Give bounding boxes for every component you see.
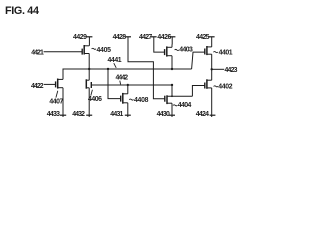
svg-text:4442: 4442 [116,74,129,81]
wire 4404 source down to 4430 [171,103,173,117]
svg-text:4433: 4433 [47,111,60,118]
wire 4408 source down to 4431 [127,103,129,117]
wire node 4441 branch down to 4408 gate [108,69,121,99]
terminal tick 4430 [169,114,175,116]
wire 4401 source down through 4423 node to 4402 drain [211,54,213,80]
svg-text:4423: 4423 [225,67,238,74]
leader for 4407 [56,91,58,98]
terminal tick 4429 [86,36,92,38]
junction dot 4442/4408 [127,84,129,86]
terminal tick 4432 [86,114,92,116]
svg-text:4424: 4424 [196,111,209,118]
node line 4441 [63,69,192,79]
terminal tick 4427 [151,36,157,38]
terminal tick 4428 [125,36,131,38]
junction dot 4404 drain [171,95,173,97]
terminal tick 4424 [210,114,216,116]
svg-text:4432: 4432 [72,111,85,118]
transistor 4401 [205,46,212,55]
leader tilde 4403 [175,49,179,50]
wire 4427 stem to 4403 gate [154,37,165,52]
svg-text:4429: 4429 [73,34,87,41]
leader for 4441 [114,63,116,68]
svg-text:4406: 4406 [88,96,102,103]
transistor 4405 [82,45,89,55]
node line 4442 [91,84,172,86]
leader tilde 4405 [92,48,96,49]
wire 4407 source down to 4433 [62,88,64,117]
wire 4422 to 4407 gate [44,83,56,85]
wire 4403 source down to node 4441 [171,56,173,69]
leader tilde 4401 [213,52,217,53]
wire 4442 end down to 4404 drain [171,85,173,96]
svg-text:4407: 4407 [49,99,63,106]
junction dot node 4441/4403 [171,68,173,70]
junction dot node 4441/4405 [88,68,90,70]
svg-text:4421: 4421 [31,49,44,56]
transistor 4406 (gate on right) [86,79,91,88]
wire 4423 output stub [212,68,225,70]
junction dot node 4423 [211,68,213,70]
svg-text:4430: 4430 [157,111,170,118]
svg-text:4403: 4403 [179,47,193,54]
wire 4404 drain lead right to 4402 gate elbow [167,95,192,97]
leader for 4406 [91,90,93,96]
wire 4401 gate elbow from line 4441 [192,52,205,69]
leader tilde 4408 [129,99,133,100]
wire 4402 gate elbow down to 4404 drain [192,86,204,97]
leader tilde 4404 [173,105,177,106]
terminal tick 4425 [209,36,215,38]
wire 4425 stem to 4401 drain [211,37,213,47]
transistor 4407 [56,79,63,89]
wire 4428 stem elbow to 4404 gate [128,37,165,99]
svg-text:4402: 4402 [218,83,233,90]
svg-text:4408: 4408 [134,97,149,104]
leader tilde 4402 [214,86,218,87]
svg-text:FIG. 44: FIG. 44 [5,5,39,17]
svg-text:4441: 4441 [108,57,122,64]
transistor 4404 [165,95,172,104]
svg-text:4428: 4428 [113,34,127,41]
terminal tick 4426 [170,36,176,38]
transistor 4408 [121,93,128,104]
transistor 4402 [205,79,212,89]
svg-text:4401: 4401 [219,50,233,57]
transistor 4403 [165,46,172,56]
wire 4429 stem to 4405 drain [88,37,90,46]
svg-text:4425: 4425 [196,34,210,41]
svg-text:4427: 4427 [139,34,152,41]
svg-text:4426: 4426 [157,34,171,41]
wire 4442 junction down to 4408 drain [127,85,129,94]
svg-text:4405: 4405 [97,47,112,54]
svg-text:4404: 4404 [178,102,192,109]
wire 4402 source down to 4424 [211,88,213,117]
svg-text:4422: 4422 [31,83,44,90]
wire 4421 to 4405 gate [44,51,83,53]
leader for 4442 [119,81,122,85]
junction dot 4442/4404 [171,84,173,86]
terminal tick 4433 [60,114,66,116]
wire 4405 source down to node 4441 [88,54,90,70]
wire 4406 source down to 4432 [88,88,90,117]
junction dot node 4441 branch [107,68,109,70]
wire node 4441 down to 4406 drain [88,69,90,80]
svg-text:4431: 4431 [110,111,123,118]
wire 4426 stem to 4403 drain [171,37,173,48]
terminal tick 4431 [125,114,131,116]
